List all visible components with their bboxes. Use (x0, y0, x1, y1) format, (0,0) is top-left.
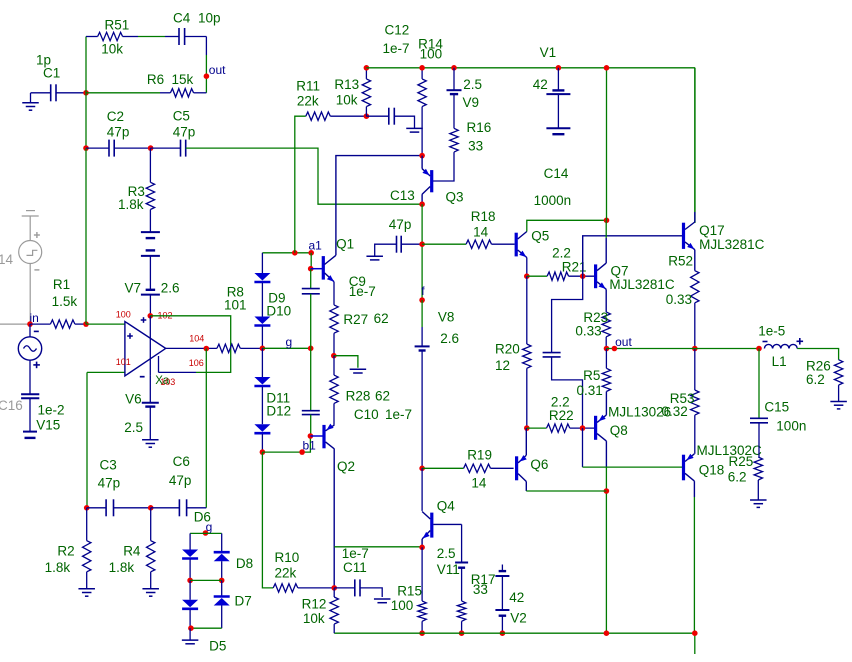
svg-text:R51: R51 (105, 18, 130, 33)
wire C15 to R25 (758, 423, 760, 457)
wire Q2 col to Q4 emitter (334, 546, 422, 548)
wire R52 to out (694, 303, 696, 349)
wire Q8 base node down (582, 428, 584, 467)
svg-text:12: 12 (495, 358, 510, 373)
node junction R10/R12/C11 (331, 585, 337, 591)
wire C15 column (758, 349, 760, 419)
wire V7 mid (149, 256, 151, 290)
svg-text:MJL3281C: MJL3281C (609, 277, 675, 292)
battery V11 plates (455, 562, 468, 564)
wire C3 to C6 (114, 507, 151, 509)
svg-text:33: 33 (468, 139, 483, 154)
node junction rail Q18 (692, 630, 698, 636)
wire V6 to ground (149, 407, 151, 440)
svg-text:1e-2: 1e-2 (38, 403, 65, 418)
wire C9 to g (310, 294, 312, 349)
diode D10 (254, 317, 270, 325)
svg-text:47p: 47p (389, 217, 412, 232)
wire R3 top lead (149, 148, 151, 182)
wire D block bottom bus (190, 627, 222, 629)
capacitor C16 (21, 393, 39, 395)
svg-text:V1: V1 (540, 45, 557, 60)
svg-text:0.33: 0.33 (666, 292, 692, 307)
node junction Q3/route (419, 201, 425, 207)
source V15 circle (18, 337, 41, 360)
svg-text:V8: V8 (438, 309, 455, 324)
capacitor C11 (354, 579, 356, 596)
svg-text:D7: D7 (235, 594, 252, 609)
node junction C3/C6 mid (148, 505, 154, 511)
label plus L1 (797, 340, 804, 342)
resistor R5 (602, 368, 610, 391)
wire D11 to D12 (261, 387, 263, 424)
label minus L1 (763, 341, 768, 343)
resistor R11 (306, 112, 331, 120)
wire in to V15 (29, 324, 31, 337)
node junction Q6 coll (604, 488, 610, 494)
wire R22 lead (527, 427, 547, 429)
wire out rail (607, 348, 760, 350)
svg-text:2.5: 2.5 (463, 77, 482, 92)
transistor Q18 (682, 455, 685, 481)
transistor Q3 (430, 170, 433, 192)
svg-text:V2: V2 (510, 611, 527, 626)
wire gray left stub (0, 323, 30, 325)
wire left vertical mid (85, 93, 87, 148)
node junction C2 left (83, 145, 89, 151)
wire R13 leads (365, 68, 367, 79)
wire C2 to C5 (114, 147, 150, 149)
svg-text:10k: 10k (101, 42, 123, 57)
svg-text:6.2: 6.2 (806, 372, 825, 387)
battery V6 plates (142, 402, 159, 404)
wire R10 to node (298, 587, 334, 589)
wire C13 to ground (375, 244, 397, 256)
node junction g left (260, 346, 266, 352)
node 102 (148, 313, 154, 319)
wire R53 to Q18 (694, 415, 696, 454)
wire V9 top lead (453, 68, 455, 90)
wire C3 lead (87, 507, 106, 509)
svg-text:101: 101 (116, 357, 131, 367)
transistor Q2 (310, 435, 322, 437)
wire R15 to rail (421, 621, 423, 633)
node junction C1/R6 (83, 90, 89, 96)
svg-text:C3: C3 (100, 458, 117, 473)
svg-text:R13: R13 (334, 77, 359, 92)
svg-text:101: 101 (224, 298, 247, 313)
svg-text:10k: 10k (336, 93, 358, 108)
resistor R1 (50, 320, 75, 328)
capacitor C15 (750, 417, 768, 419)
node junction b1 left (260, 449, 266, 455)
wire V11 top (461, 524, 463, 562)
resistor R15 (418, 601, 426, 621)
wire Q1 collector route (336, 156, 422, 256)
wire cap bottom route (552, 357, 583, 428)
source V14 step symbol (27, 250, 38, 255)
svg-text:33: 33 (473, 582, 488, 597)
svg-text:R52: R52 (668, 254, 693, 269)
wire to C5 (151, 147, 181, 149)
label plus V15 (33, 364, 40, 366)
wire Q17 collector (694, 212, 696, 222)
svg-text:R22: R22 (549, 408, 574, 423)
svg-text:14: 14 (471, 476, 487, 491)
svg-text:D5: D5 (209, 639, 226, 654)
wire C13 to node (401, 243, 422, 245)
wire mid vertical V8 column (421, 204, 423, 300)
label minus V15 (34, 330, 39, 332)
wire bottom rail stub (694, 633, 696, 654)
wire Q18 base row (583, 466, 684, 468)
node junction R19 left (419, 466, 425, 472)
svg-text:Q8: Q8 (610, 423, 628, 438)
wire R18 lead (422, 243, 466, 245)
svg-text:Q4: Q4 (437, 498, 456, 513)
wire C4 to out node (185, 36, 207, 38)
battery V8 plates (415, 345, 430, 347)
inductor L1 (764, 344, 797, 348)
wire Q2 collector route (333, 449, 335, 588)
wire V7 to node 102 (149, 295, 151, 316)
svg-text:R19: R19 (467, 447, 492, 462)
wire V9 to R16 (453, 94, 455, 128)
wire ground to C1 (31, 92, 51, 94)
node junction rail R17 (459, 630, 465, 636)
svg-text:C16: C16 (0, 398, 23, 413)
resistor R8 (217, 344, 240, 352)
wire Q8 emitter (605, 441, 607, 467)
transistor Q8 (594, 416, 597, 440)
wire D9 to D10 (261, 283, 263, 317)
node junction rail Q6col (604, 630, 610, 636)
wire minus net vertical (86, 372, 88, 507)
svg-text:62: 62 (374, 311, 389, 326)
svg-text:0.32: 0.32 (662, 404, 688, 419)
battery V7 upper plates (141, 231, 160, 233)
node junction out R52 (692, 346, 698, 352)
svg-text:100: 100 (420, 46, 443, 61)
wire Q7 collector (605, 238, 607, 263)
svg-text:62: 62 (375, 389, 390, 404)
wire D6 stub (189, 533, 191, 549)
capacitor C13 (396, 236, 398, 253)
source V15 sine (24, 346, 37, 352)
node junction rail V9 (451, 65, 457, 71)
wire Q3 emitter up (421, 156, 423, 169)
wire b1 to R10 (262, 452, 273, 588)
node junction Q4 emitter (419, 545, 425, 551)
svg-text:100n: 100n (776, 418, 806, 433)
battery V15 plates (23, 431, 37, 433)
svg-text:V15: V15 (36, 418, 60, 433)
transistor Q1 (311, 268, 323, 270)
resistor R10 (273, 584, 298, 592)
wire D10 to g (261, 326, 263, 348)
wire a1 row from R11 col (262, 252, 311, 254)
node junction rail R14 (419, 65, 425, 71)
transistor Q17 (682, 223, 685, 249)
svg-text:C13: C13 (390, 188, 415, 203)
wire V8 to R19 node (421, 351, 423, 469)
diode D6 (182, 550, 198, 558)
wire Q4 collector (421, 468, 423, 511)
svg-text:1e-5: 1e-5 (758, 324, 785, 339)
ground at C13 (366, 255, 383, 257)
svg-text:out: out (209, 63, 226, 77)
svg-text:22k: 22k (275, 566, 297, 581)
battery V9 plates (447, 89, 462, 91)
resistor R25 (754, 457, 762, 480)
wire C5 to Q3 route (186, 148, 422, 204)
node junction R22 left (524, 425, 530, 431)
wire in to R1 (30, 323, 50, 325)
resistor R3 (146, 182, 154, 209)
svg-text:b1: b1 (303, 439, 317, 453)
svg-text:106: 106 (189, 358, 204, 368)
node b1 (299, 449, 305, 455)
wire R51 row (86, 36, 98, 38)
node junction Q3 emitter (419, 153, 425, 159)
wire C11 to ground (360, 588, 382, 597)
svg-text:1.8k: 1.8k (45, 560, 71, 575)
ground at C1 (30, 93, 32, 103)
wire D block top bus (190, 532, 222, 534)
svg-text:C12: C12 (385, 23, 410, 38)
wire D block ground stem (189, 628, 191, 639)
ground at C12 (406, 127, 423, 129)
svg-text:C15: C15 (764, 400, 789, 415)
svg-text:Q3: Q3 (446, 189, 464, 204)
wire gray stem (29, 216, 31, 241)
wire to C2 (86, 147, 109, 149)
svg-text:C10: C10 (354, 407, 379, 422)
wire V2 to rail (501, 616, 503, 634)
wire bottom rail (334, 632, 695, 634)
svg-text:104: 104 (189, 334, 204, 344)
wire V11 to R17 (461, 568, 463, 601)
wire left vertical top (85, 37, 87, 93)
wire R20 to R22 node (526, 368, 528, 428)
wire R14 leads (421, 68, 423, 79)
op-amp output wire (166, 347, 217, 349)
svg-text:2.5: 2.5 (437, 546, 456, 561)
node junction R18 left (419, 241, 425, 247)
source V14 circle (19, 241, 42, 264)
op-amp U1 X03 triangle (125, 322, 166, 376)
wire D block bottom left (189, 610, 191, 629)
wire b1 row (262, 436, 310, 452)
svg-text:R4: R4 (123, 543, 141, 558)
wire R19 to Q6 base (491, 467, 514, 469)
op-amp supply minus marker (140, 376, 145, 378)
capacitor C1 (50, 84, 52, 101)
wire D block bottom right (221, 606, 223, 629)
wire R6 row (86, 92, 160, 94)
diode D12 (254, 424, 270, 432)
svg-text:1.5k: 1.5k (52, 294, 78, 309)
svg-text:D10: D10 (266, 304, 291, 319)
node junction rail V1 (556, 65, 562, 71)
wire R27 to node (333, 333, 335, 356)
wire R21 lead (527, 275, 547, 277)
wire feedback navy part (159, 371, 197, 373)
svg-text:R27: R27 (343, 312, 368, 327)
svg-text:1000n: 1000n (534, 193, 572, 208)
svg-text:100: 100 (116, 310, 131, 320)
svg-text:Q5: Q5 (531, 229, 549, 244)
wire Q8 collector (605, 392, 607, 415)
diode D7 (214, 595, 230, 598)
node a1 (308, 250, 314, 256)
ground at R25 (750, 499, 767, 501)
diode D9 (254, 273, 270, 281)
wire D8 stub (221, 533, 223, 551)
wire Q6 emitter up (525, 428, 527, 455)
wire D12 to b1 (261, 434, 263, 452)
svg-text:1.8k: 1.8k (118, 197, 144, 212)
wire D block mid right (221, 561, 223, 580)
svg-text:1e-7: 1e-7 (383, 41, 410, 56)
svg-text:1e-7: 1e-7 (349, 284, 376, 299)
svg-text:Q17: Q17 (699, 223, 725, 238)
wire C6 right (187, 507, 207, 509)
wire D7 stub (221, 580, 223, 595)
wire D9 top (261, 253, 263, 273)
wire Q17 emitter (694, 250, 696, 271)
ground at R2 (78, 588, 95, 590)
node junction rail V2 (500, 630, 506, 636)
node junction D mid left (187, 578, 193, 584)
wire R6 right lead (194, 92, 207, 94)
op-amp plus input marker (127, 335, 133, 337)
svg-text:C5: C5 (173, 108, 190, 123)
svg-text:0.33: 0.33 (575, 324, 601, 339)
svg-text:22k: 22k (297, 93, 319, 108)
svg-text:2.2: 2.2 (552, 246, 571, 261)
wire R11 to R13 node (330, 115, 366, 117)
wire R13node to C12 cap (366, 115, 388, 117)
wire C14 column (606, 68, 608, 221)
node f (419, 297, 425, 303)
label plus V14 (34, 234, 40, 236)
node junction R1/feedback (83, 321, 89, 327)
wire C1 to node (56, 92, 86, 94)
svg-text:R5: R5 (583, 368, 600, 383)
capacitor C4 (178, 28, 180, 45)
svg-text:0.31: 0.31 (577, 383, 603, 398)
svg-text:42: 42 (509, 590, 524, 605)
node junction Q2 base (308, 433, 314, 439)
svg-text:R25: R25 (729, 454, 754, 469)
node in (27, 321, 33, 327)
svg-text:D8: D8 (236, 556, 253, 571)
node junction rail R15 (419, 630, 425, 636)
wire D block mid left (189, 559, 191, 580)
resistor R28 (330, 375, 338, 403)
node junction rail R13 (364, 65, 370, 71)
svg-text:47p: 47p (98, 476, 121, 491)
resistor R18 (466, 240, 491, 248)
ground at R26 (830, 401, 847, 403)
wire C6 lead (151, 507, 180, 509)
svg-text:L1: L1 (772, 354, 787, 369)
ground at R27/R28 node (350, 368, 367, 370)
resistor R26 (834, 360, 842, 385)
node junction C3 left (84, 505, 90, 511)
resistor R27 (330, 305, 338, 333)
capacitor C5 (180, 140, 182, 157)
svg-text:R16: R16 (467, 120, 492, 135)
resistor R17 (457, 601, 465, 621)
resistor R12 (330, 597, 338, 624)
wire Q5 collector (527, 220, 607, 231)
op-amp supply plus marker (141, 319, 147, 321)
svg-text:R20: R20 (495, 341, 520, 356)
wire V1 top lead (557, 68, 559, 91)
capacitor C2 (108, 140, 110, 157)
node 104 (204, 346, 210, 352)
resistor R53 (691, 390, 699, 415)
wire D5 stub (189, 580, 191, 599)
op-amp bottom pin stub (158, 356, 160, 372)
resistor R51 (98, 32, 123, 40)
wire V1 mid (557, 94, 559, 128)
wire Q8 emitter col down (605, 467, 607, 633)
svg-text:R10: R10 (275, 550, 300, 565)
wire cap top route (552, 276, 583, 352)
svg-text:1e-7: 1e-7 (385, 407, 412, 422)
wire feedback U shape (150, 316, 230, 373)
wire R25 to ground (757, 480, 759, 500)
wire 104 to C6 vertical (205, 349, 207, 508)
wire C16 to V15 bottom (29, 398, 31, 431)
wire left vertical lower (85, 148, 87, 324)
wire R22 to Q8 base (570, 427, 594, 429)
svg-text:6.2: 6.2 (728, 469, 747, 484)
svg-text:14: 14 (473, 225, 489, 240)
svg-text:C2: C2 (107, 109, 124, 124)
transistor Q6 (515, 456, 518, 480)
wire Q6 collector down (525, 482, 527, 492)
node out label (612, 346, 618, 352)
node junction L1 left (756, 346, 762, 352)
wire R15 top (421, 547, 423, 601)
svg-text:Q18: Q18 (699, 463, 725, 478)
svg-text:MJL3281C: MJL3281C (699, 237, 765, 252)
svg-text:R11: R11 (296, 78, 320, 93)
capacitor C6 (178, 499, 180, 516)
svg-text:47p: 47p (169, 473, 192, 488)
transistor Q5 (515, 233, 518, 257)
resistor R52 (691, 271, 699, 303)
wire C10 to Q2 base node (310, 415, 312, 436)
svg-text:Q2: Q2 (337, 459, 355, 474)
resistor R14 (418, 79, 426, 107)
wire R11 left column (295, 116, 306, 253)
svg-text:10p: 10p (198, 11, 221, 26)
node junction out left (604, 346, 610, 352)
wire op-amp minus input (87, 371, 125, 373)
ground at R4 (142, 588, 159, 590)
svg-text:R12: R12 (302, 597, 327, 612)
battery V2 plates (499, 570, 507, 572)
battery V1 plates (552, 89, 564, 91)
wire to C9 (310, 269, 312, 289)
wire Q1 emitter lead (333, 282, 335, 305)
wire R19 lead (422, 467, 464, 469)
